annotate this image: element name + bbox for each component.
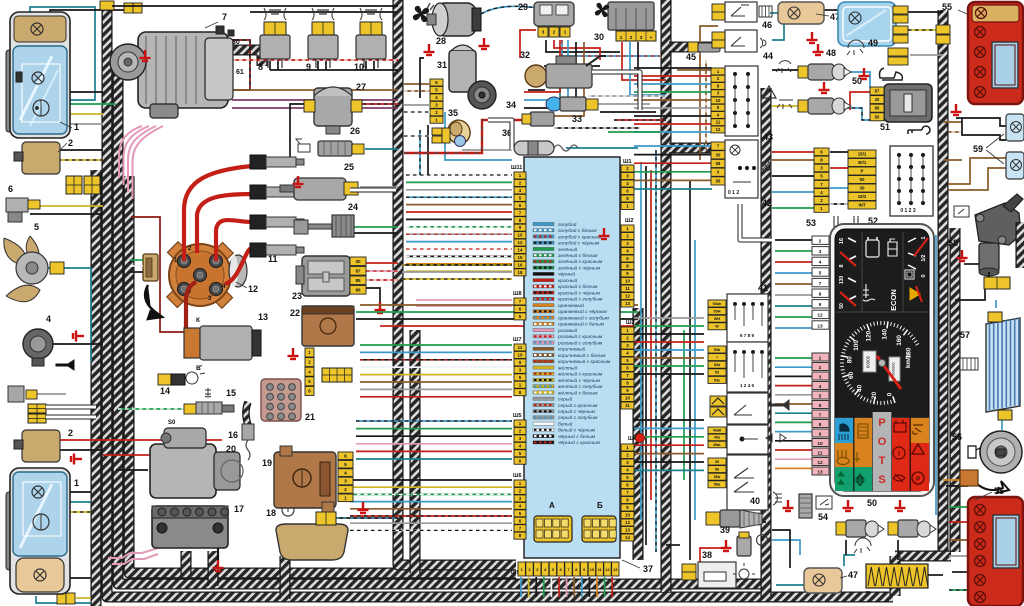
svg-text:+: + (650, 35, 653, 40)
svg-text:3: 3 (640, 35, 643, 40)
svg-text:10: 10 (817, 441, 823, 447)
svg-text:коричневый с белым: коричневый с белым (558, 352, 606, 359)
svg-text:53b: 53b (714, 348, 721, 352)
svg-text:зелёный с белым: зелёный с белым (557, 252, 598, 259)
svg-text:0: 0 (887, 392, 894, 396)
svg-text:56a: 56a (714, 483, 721, 487)
svg-text:20: 20 (226, 444, 236, 454)
svg-text:розовый с голубым: розовый с голубым (557, 339, 603, 346)
svg-text:30: 30 (594, 32, 604, 42)
svg-text:12: 12 (625, 294, 630, 299)
svg-text:T: T (879, 455, 886, 467)
svg-text:Ш11: Ш11 (511, 165, 522, 171)
svg-text:55: 55 (942, 2, 952, 12)
svg-text:Ш6: Ш6 (513, 473, 522, 479)
svg-text:16: 16 (839, 238, 845, 244)
svg-text:жёлтый с чёрным: жёлтый с чёрным (557, 377, 601, 384)
svg-text:49a: 49a (714, 436, 720, 440)
svg-text:W: W (715, 325, 719, 329)
svg-text:O: O (878, 436, 887, 448)
svg-text:Б: Б (196, 365, 201, 372)
svg-text:km/h: km/h (906, 354, 912, 368)
svg-text:голубой с красным: голубой с красным (558, 233, 602, 240)
svg-text:12: 12 (625, 520, 630, 525)
svg-text:22: 22 (290, 308, 300, 318)
svg-text:2: 2 (68, 428, 73, 438)
svg-text:2: 2 (553, 30, 556, 35)
svg-text:1: 1 (74, 478, 79, 488)
svg-text:оранжевый с голубым: оранжевый с голубым (558, 314, 610, 321)
svg-text:8: 8 (575, 568, 577, 572)
svg-text:53ah: 53ah (713, 302, 722, 306)
svg-text:26: 26 (350, 126, 360, 136)
svg-text:2: 2 (819, 365, 822, 371)
svg-text:100: 100 (853, 340, 860, 351)
svg-text:3: 3 (819, 249, 822, 255)
svg-text:17: 17 (234, 504, 244, 514)
svg-text:зелёный с чёрным: зелёный с чёрным (557, 264, 601, 271)
svg-text:голубой: голубой (558, 221, 577, 228)
svg-text:А: А (549, 501, 555, 510)
svg-text:30: 30 (715, 460, 719, 464)
svg-text:красный с чёрным: красный с чёрным (558, 289, 601, 296)
svg-text:жёлтый с красным: жёлтый с красным (557, 371, 603, 378)
svg-text:4: 4 (819, 384, 822, 390)
svg-text:10: 10 (518, 233, 523, 238)
svg-text:красный: красный (558, 277, 577, 284)
svg-text:24: 24 (348, 202, 358, 212)
svg-text:5: 5 (819, 270, 822, 276)
svg-text:30: 30 (875, 97, 880, 102)
svg-text:40: 40 (750, 496, 760, 506)
svg-text:42: 42 (762, 198, 772, 208)
svg-text:53a: 53a (714, 363, 721, 367)
svg-text:85: 85 (355, 278, 361, 283)
svg-text:3: 3 (542, 30, 545, 35)
svg-text:2: 2 (344, 487, 347, 493)
svg-text:38: 38 (702, 550, 712, 560)
svg-text:0 1 2 3: 0 1 2 3 (900, 208, 916, 214)
svg-text:1: 1 (564, 30, 567, 35)
svg-text:60: 60 (848, 371, 855, 379)
svg-text:8: 8 (819, 422, 822, 428)
svg-text:2: 2 (630, 35, 633, 40)
svg-text:10: 10 (716, 98, 721, 103)
svg-text:13: 13 (613, 568, 617, 572)
svg-text:9: 9 (819, 431, 822, 437)
svg-text:4: 4 (46, 314, 51, 324)
svg-text:чёрный: чёрный (558, 271, 575, 278)
svg-text:оранжевый с белым: оранжевый с белым (558, 321, 605, 328)
svg-text:47: 47 (848, 570, 858, 580)
svg-text:9: 9 (583, 568, 585, 572)
svg-text:56b: 56b (714, 475, 721, 479)
svg-text:19: 19 (262, 458, 272, 468)
svg-text:56: 56 (715, 467, 719, 471)
svg-text:30: 30 (355, 259, 361, 264)
svg-text:12: 12 (817, 460, 823, 466)
svg-text:13: 13 (625, 301, 630, 306)
svg-text:34: 34 (506, 100, 516, 110)
svg-text:К: К (196, 317, 200, 324)
svg-text:54: 54 (818, 512, 828, 522)
svg-text:57: 57 (960, 330, 970, 340)
svg-text:55: 55 (994, 486, 1004, 496)
svg-text:3: 3 (819, 374, 822, 380)
svg-text:3: 3 (344, 479, 347, 485)
svg-text:P: P (878, 417, 885, 429)
svg-text:30: 30 (716, 152, 721, 157)
svg-text:серый с голубым: серый с голубым (558, 414, 598, 421)
svg-text:0 1 2: 0 1 2 (728, 190, 739, 196)
svg-text:3: 3 (536, 568, 538, 572)
svg-text:10: 10 (590, 568, 594, 572)
svg-text:ECON: ECON (889, 289, 898, 311)
svg-text:розовый: розовый (557, 327, 577, 334)
svg-text:35: 35 (448, 108, 458, 118)
svg-text:49aL: 49aL (713, 443, 722, 447)
svg-text:5: 5 (552, 568, 554, 572)
svg-text:13: 13 (258, 312, 268, 322)
svg-text:12: 12 (248, 284, 258, 294)
svg-text:50: 50 (839, 303, 845, 309)
svg-text:18: 18 (266, 508, 276, 518)
svg-text:12: 12 (817, 313, 823, 319)
svg-text:33: 33 (572, 114, 582, 124)
svg-text:59: 59 (973, 144, 983, 154)
svg-text:49aR: 49aR (713, 429, 722, 433)
svg-text:80: 80 (847, 356, 854, 364)
svg-text:6: 6 (819, 403, 822, 409)
svg-text:12: 12 (605, 568, 609, 572)
svg-text:53: 53 (715, 371, 719, 375)
svg-text:8: 8 (819, 292, 822, 298)
svg-text:голубой с белым: голубой с белым (558, 227, 597, 234)
svg-text:7: 7 (222, 12, 227, 22)
svg-text:1: 1 (344, 496, 347, 502)
svg-text:серый с чёрным: серый с чёрным (558, 408, 596, 415)
svg-text:39: 39 (720, 525, 730, 535)
svg-text:WH: WH (714, 317, 721, 321)
svg-text:13: 13 (625, 528, 630, 533)
svg-text:53: 53 (806, 218, 816, 228)
svg-text:1: 1 (521, 568, 523, 572)
svg-text:29: 29 (518, 2, 528, 12)
svg-text:56: 56 (716, 178, 721, 183)
svg-text:S0: S0 (168, 420, 176, 426)
svg-text:120: 120 (866, 330, 873, 341)
svg-text:зелёный с красным: зелёный с красным (557, 258, 603, 265)
svg-text:14: 14 (625, 535, 630, 540)
svg-text:30: 30 (860, 186, 865, 191)
svg-text:87: 87 (355, 268, 361, 273)
svg-text:Ш8: Ш8 (513, 291, 522, 297)
svg-text:X: X (717, 170, 720, 175)
svg-text:15: 15 (518, 255, 523, 260)
svg-text:16: 16 (228, 430, 238, 440)
svg-text:58: 58 (948, 238, 958, 248)
svg-text:Ш3: Ш3 (626, 320, 635, 326)
svg-text:Б: Б (597, 501, 603, 510)
svg-text:12: 12 (716, 127, 721, 132)
svg-text:INT: INT (858, 203, 865, 208)
svg-text:S: S (878, 474, 885, 486)
svg-text:6: 6 (344, 454, 347, 460)
svg-text:51: 51 (880, 122, 890, 132)
svg-text:!: ! (898, 451, 900, 458)
svg-text:30/1: 30/1 (858, 160, 867, 165)
svg-text:48: 48 (826, 48, 836, 58)
svg-text:жёлтый с голубым: жёлтый с голубым (557, 383, 603, 390)
svg-text:25: 25 (344, 162, 354, 172)
svg-text:14: 14 (160, 386, 170, 396)
svg-text:i: i (716, 355, 717, 359)
svg-text:41: 41 (758, 283, 768, 293)
svg-text:9: 9 (306, 62, 311, 72)
svg-text:43: 43 (763, 132, 773, 142)
svg-text:32: 32 (520, 50, 530, 60)
svg-text:49: 49 (868, 38, 878, 48)
svg-text:9: 9 (819, 302, 822, 308)
svg-text:0: 0 (921, 274, 927, 277)
svg-text:50: 50 (852, 76, 862, 86)
svg-text:53e: 53e (714, 378, 720, 382)
svg-text:Ш7: Ш7 (513, 337, 522, 343)
svg-text:00000: 00000 (866, 355, 871, 368)
svg-text:30: 30 (232, 39, 240, 46)
svg-text:1: 1 (74, 122, 79, 132)
svg-text:37: 37 (643, 564, 653, 574)
svg-text:оранжевый с чёрным: оранжевый с чёрным (558, 308, 607, 315)
svg-text:5: 5 (819, 393, 822, 399)
svg-text:P: P (916, 476, 921, 483)
svg-text:140: 140 (881, 329, 888, 340)
svg-text:31: 31 (437, 60, 447, 70)
svg-text:12: 12 (518, 240, 523, 245)
svg-text:6: 6 (8, 184, 13, 194)
svg-text:15: 15 (226, 388, 236, 398)
svg-text:27: 27 (356, 82, 366, 92)
svg-text:7: 7 (819, 281, 822, 287)
svg-text:зелёный: зелёный (557, 246, 578, 253)
svg-text:2: 2 (528, 568, 530, 572)
svg-text:8: 8 (839, 264, 845, 267)
svg-text:23: 23 (292, 291, 302, 301)
svg-text:коричневый: коричневый (558, 346, 586, 353)
svg-text:21: 21 (305, 412, 315, 422)
svg-text:160: 160 (896, 335, 903, 346)
svg-text:28: 28 (436, 36, 446, 46)
svg-text:10: 10 (518, 353, 523, 358)
svg-text:46: 46 (762, 20, 772, 30)
svg-text:85: 85 (875, 114, 880, 119)
svg-text:11: 11 (598, 568, 602, 572)
svg-text:5: 5 (34, 222, 39, 232)
svg-text:87: 87 (875, 89, 880, 94)
svg-text:6 7 8 9: 6 7 8 9 (740, 333, 754, 338)
svg-text:11: 11 (268, 254, 278, 264)
svg-text:1 2 4 5: 1 2 4 5 (740, 383, 754, 388)
svg-text:11: 11 (625, 403, 630, 408)
svg-text:13: 13 (817, 469, 823, 475)
svg-text:1: 1 (819, 355, 822, 361)
svg-text:жёлтый с белым: жёлтый с белым (557, 389, 598, 396)
svg-text:11: 11 (518, 345, 523, 350)
svg-text:45: 45 (686, 52, 696, 62)
svg-text:красный с голубым: красный с голубым (558, 296, 603, 303)
svg-text:5: 5 (344, 462, 347, 468)
svg-text:56: 56 (952, 432, 962, 442)
svg-text:10: 10 (625, 513, 630, 518)
svg-text:чёрный с белым: чёрный с белым (558, 433, 596, 440)
svg-text:53H: 53H (714, 309, 721, 313)
svg-text:коричневый с красным: коричневый с красным (558, 358, 611, 365)
svg-text:86: 86 (875, 106, 880, 111)
svg-text:130: 130 (839, 276, 845, 285)
svg-text:2: 2 (68, 138, 73, 148)
svg-text:8: 8 (258, 62, 263, 72)
svg-text:4: 4 (344, 470, 347, 476)
svg-text:белый с чёрным: белый с чёрным (558, 427, 596, 434)
svg-text:11: 11 (817, 450, 822, 456)
svg-text:14: 14 (518, 248, 523, 253)
svg-text:чёрный с красным: чёрный с красным (558, 439, 601, 446)
svg-text:серый: серый (558, 396, 572, 403)
svg-text:13: 13 (817, 323, 823, 329)
svg-text:голубой с чёрным: голубой с чёрным (558, 240, 600, 247)
svg-text:50: 50 (867, 498, 877, 508)
svg-text:58: 58 (716, 161, 721, 166)
svg-text:7: 7 (819, 412, 822, 418)
svg-text:4: 4 (819, 260, 822, 266)
svg-text:40: 40 (857, 384, 864, 392)
svg-text:Ш5: Ш5 (513, 413, 522, 419)
svg-text:белый: белый (558, 420, 573, 427)
svg-text:15/1: 15/1 (858, 152, 867, 157)
svg-text:10: 10 (354, 62, 364, 72)
svg-text:жёлтый: жёлтый (557, 364, 578, 371)
svg-text:P: P (861, 169, 864, 174)
svg-text:10: 10 (625, 396, 630, 401)
svg-text:розовый с красным: розовый с красным (557, 333, 603, 340)
svg-text:61: 61 (236, 69, 244, 76)
svg-text:Ш1: Ш1 (623, 159, 632, 165)
svg-text:2: 2 (819, 239, 822, 245)
svg-text:44: 44 (763, 51, 773, 61)
svg-text:86: 86 (355, 287, 361, 292)
svg-text:20: 20 (871, 391, 878, 399)
svg-text:10: 10 (625, 279, 630, 284)
svg-text:18: 18 (518, 270, 523, 275)
svg-text:оранжевый: оранжевый (558, 302, 584, 309)
svg-text:6: 6 (560, 568, 562, 572)
svg-text:1/2: 1/2 (921, 254, 927, 261)
svg-text:Ш2: Ш2 (625, 218, 634, 224)
svg-text:11: 11 (716, 120, 721, 125)
svg-text:красный с белым: красный с белым (558, 283, 598, 290)
svg-text:11: 11 (625, 286, 630, 291)
svg-text:50: 50 (860, 177, 865, 182)
svg-text:7: 7 (567, 568, 569, 572)
svg-text:16: 16 (518, 262, 523, 267)
svg-text:15/2: 15/2 (858, 194, 867, 199)
svg-text:серый с красным: серый с красным (558, 402, 598, 409)
svg-text:1: 1 (620, 35, 623, 40)
